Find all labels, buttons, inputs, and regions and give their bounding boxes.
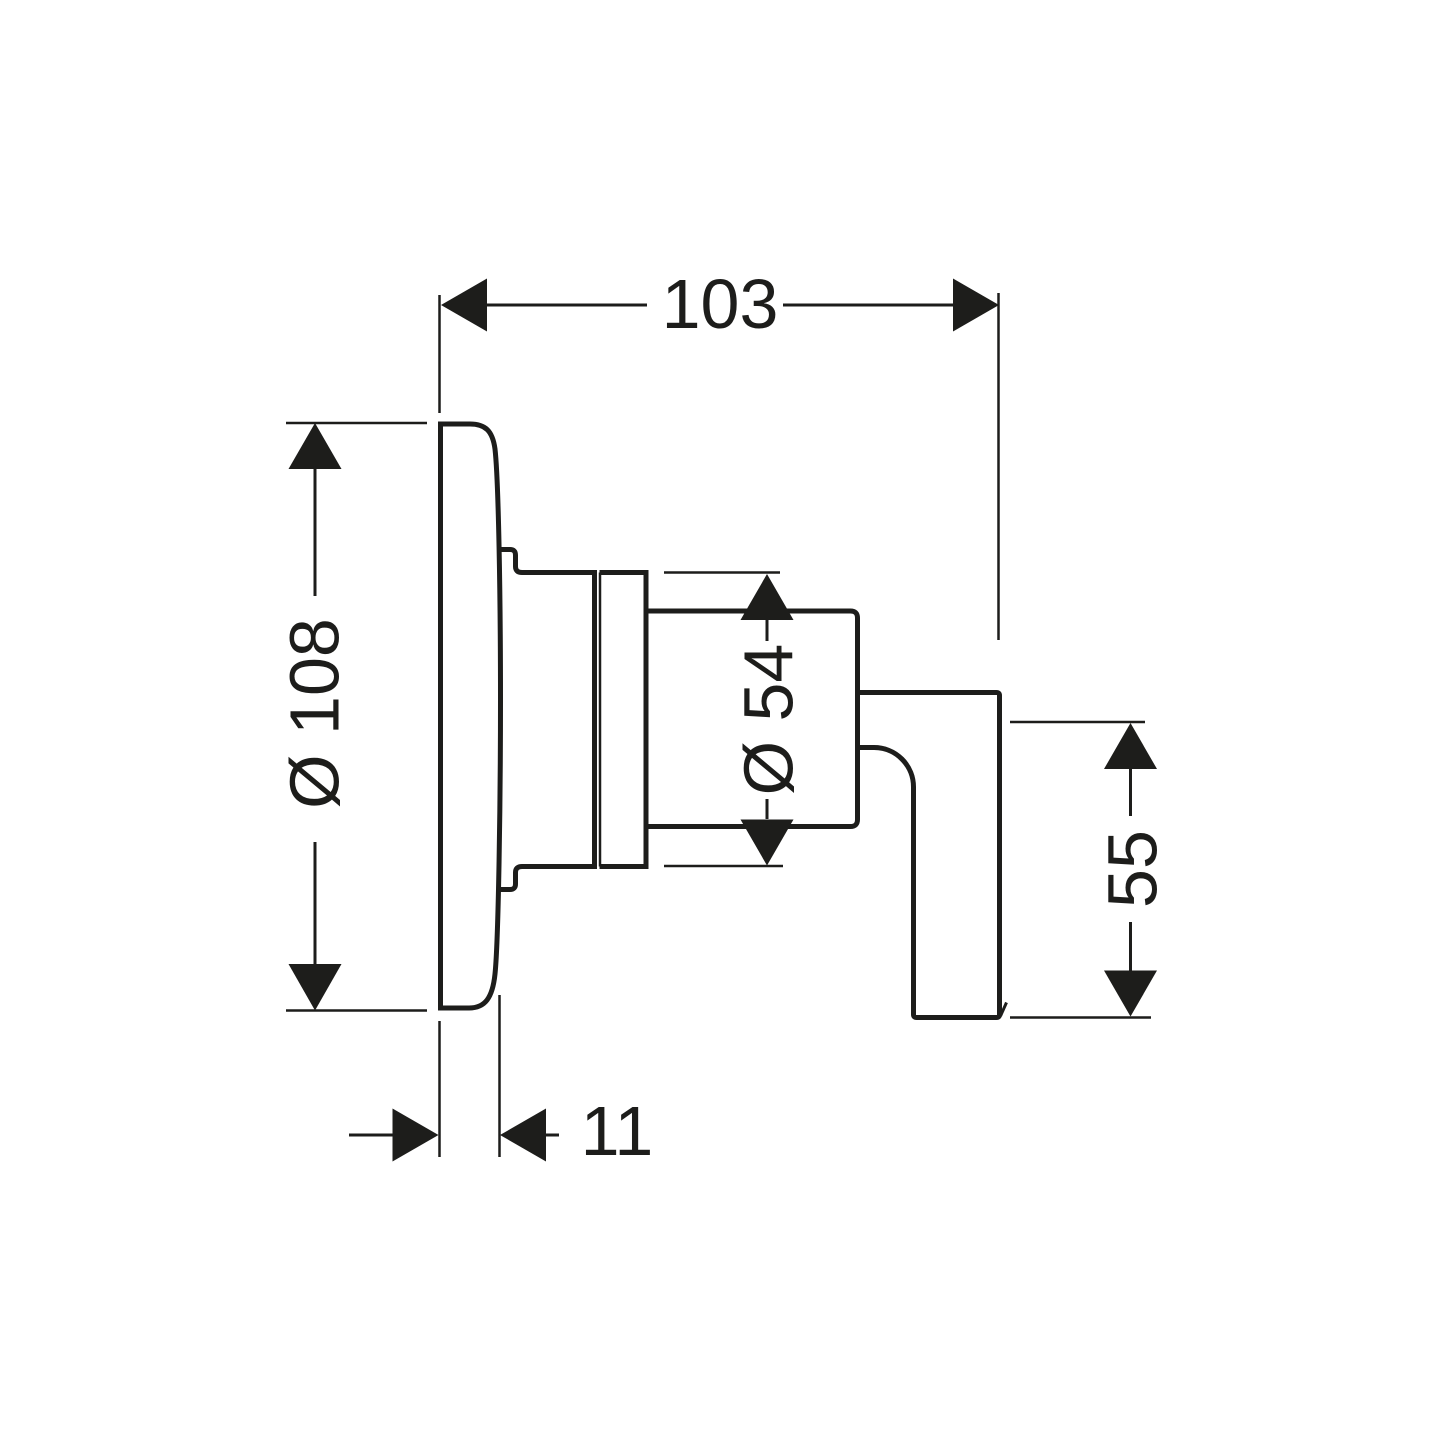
svg-text:Ø 108: Ø 108 [276, 618, 354, 809]
svg-text:11: 11 [581, 1092, 654, 1170]
svg-text:103: 103 [662, 265, 779, 343]
svg-text:55: 55 [1094, 830, 1172, 908]
svg-text:Ø 54: Ø 54 [730, 644, 808, 796]
